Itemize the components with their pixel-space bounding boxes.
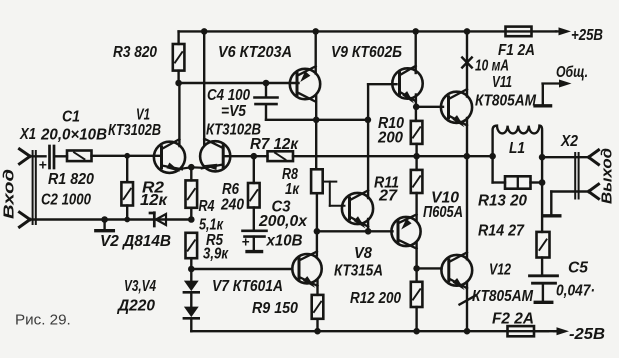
wire R12 to rail [415, 307, 417, 331]
node R10/R11 at bus [413, 153, 420, 160]
label L1 [509, 140, 525, 157]
arrow -25V [554, 327, 569, 335]
svg-text:R14 27: R14 27 [478, 223, 525, 240]
svg-text:+: + [39, 157, 47, 173]
label V1 type [108, 122, 161, 139]
wire C5 to ground [542, 283, 544, 300]
label C5 value [556, 283, 595, 300]
fuse F2 [508, 326, 535, 336]
wire emitters to R4 [190, 167, 192, 180]
label R1 value [48, 171, 94, 188]
label F2 [492, 311, 534, 328]
wire V5 base to output bus [223, 155, 267, 157]
wire V9 emitter down [415, 95, 417, 121]
svg-text:240: 240 [220, 197, 244, 214]
wire V3 to V4 [190, 293, 192, 307]
label C1 [62, 109, 80, 126]
label V8 [354, 245, 372, 262]
node V1 collector [175, 80, 182, 87]
svg-text:R4: R4 [199, 198, 215, 215]
capacitor C5 [530, 276, 558, 283]
wire V12 emitter to bottom rail [466, 282, 468, 331]
svg-text:R12 200: R12 200 [350, 290, 401, 307]
diode V3 [184, 281, 199, 293]
transistor V10 (P605A) [391, 214, 420, 248]
svg-text:КТ805АМ: КТ805АМ [475, 93, 537, 110]
svg-text:X2: X2 [560, 133, 578, 150]
svg-text:КТ805АМ: КТ805АМ [472, 288, 534, 305]
svg-text:П605А: П605А [423, 204, 463, 221]
connector X1 (input socket) [20, 149, 36, 227]
svg-text:V6 КТ203А: V6 КТ203А [218, 44, 292, 61]
label R2 [142, 180, 164, 197]
transistor V6 (KT203A) [290, 66, 320, 101]
label R13 [478, 193, 527, 210]
svg-text:10 мА: 10 мА [475, 58, 509, 75]
transistor V9 (KT602B) [392, 66, 422, 104]
wire bus to X2 [542, 156, 588, 158]
wire V8 emitter down [367, 219, 369, 231]
resistor R5 [186, 233, 198, 258]
svg-text:0,047·: 0,047· [556, 283, 595, 300]
transistor V12 (KT805AM) [441, 252, 472, 290]
wire C1 to R1 [55, 155, 68, 157]
diode V4 [184, 307, 199, 319]
wire output bus right [417, 155, 493, 157]
wire R2 bottom [126, 206, 128, 220]
label C3 value [258, 213, 308, 230]
wire V6 collector down to R8 [315, 95, 317, 169]
wire R1 to V1 base [92, 155, 162, 157]
node R2 top [124, 153, 130, 159]
svg-text:200,0х: 200,0х [258, 213, 308, 230]
svg-text:-25В: -25В [569, 326, 605, 343]
wire R7 to R10 node [293, 155, 417, 157]
transistor V11 (KT805AM) [441, 89, 472, 127]
label F1 [498, 42, 535, 59]
resistor R12 [411, 282, 423, 307]
svg-text:=V5: =V5 [221, 103, 246, 120]
transistor V5 [200, 139, 230, 172]
svg-text:5,1к: 5,1к [199, 217, 224, 234]
label V6 [218, 44, 292, 61]
node V10 collector / R12 / V12 base [413, 265, 420, 272]
wire V1 base to R2 top [126, 156, 128, 182]
wire R14 to C5 [541, 258, 543, 275]
label V5 type [206, 122, 261, 139]
label +25V [571, 27, 603, 44]
wire R9 to rail [316, 319, 318, 331]
wire C3 to ground [253, 237, 255, 251]
node R4/R5/V2 [188, 216, 195, 223]
label -25V [569, 326, 605, 343]
svg-text:R9 150: R9 150 [252, 300, 298, 317]
svg-text:КТ315А: КТ315А [334, 263, 383, 280]
label V12 type [472, 288, 534, 305]
svg-text:R6: R6 [222, 181, 239, 198]
wire R6 top lead [253, 156, 255, 183]
wire F2 to arrow [534, 330, 548, 332]
svg-text:1к: 1к [285, 181, 300, 198]
wire top rail (+25V bus) [179, 30, 556, 32]
node V6 emitter at rail [312, 28, 319, 35]
transistor V7 (KT601A) [292, 252, 321, 288]
label V11 [492, 74, 512, 91]
wire R11 to V10 emitter [415, 193, 417, 221]
node R6 top [251, 153, 258, 160]
capacitor C3 (electrolytic) [242, 231, 267, 250]
wire node to R12 [415, 268, 417, 281]
svg-text:X1: X1 [19, 126, 36, 143]
svg-text:С2 1000: С2 1000 [41, 192, 91, 209]
inductor L1 [493, 126, 542, 157]
wire V7 emitter to R9 [316, 281, 318, 295]
label C2 value [41, 192, 91, 209]
svg-text:V3,V4: V3,V4 [124, 278, 156, 295]
label R2 value [140, 192, 168, 209]
svg-text:V8: V8 [354, 245, 372, 262]
node L1 left at bus [489, 153, 496, 160]
label C4 note [221, 103, 246, 120]
label R4 [199, 198, 215, 215]
label V7 [212, 278, 283, 295]
resistor R4 [186, 180, 198, 207]
node R9 at rail [314, 328, 321, 335]
wire V10 collector down [415, 243, 417, 269]
wire L1 right down to R14 [541, 157, 543, 232]
resistor R3 [173, 44, 185, 71]
node V6 collector / C4 line [313, 117, 320, 124]
label V8 type [334, 263, 383, 280]
svg-text:V12: V12 [489, 262, 511, 279]
label X2 [560, 133, 578, 150]
ground (C3) [247, 250, 261, 253]
svg-text:F1 2А: F1 2А [498, 42, 535, 59]
svg-text:R1 820: R1 820 [48, 171, 94, 188]
wire bus to R11 [415, 156, 417, 170]
transistor V8 (KT315A) [342, 190, 373, 228]
leader line V12 label [460, 296, 476, 305]
resistor R1 [67, 151, 92, 162]
svg-text:V9 КТ602Б: V9 КТ602Б [331, 44, 402, 61]
wire X1 to C1 [29, 155, 46, 157]
resistor R7 [268, 151, 294, 161]
label R8 [282, 166, 298, 183]
wire X2 bottom to ground [551, 192, 588, 215]
label V12 [489, 262, 511, 279]
svg-text:С4 100: С4 100 [207, 87, 250, 104]
wire rail start to R3 [177, 31, 179, 44]
wire V1 collector up [178, 83, 180, 146]
node V11 collector at rail [464, 28, 471, 35]
node R2 bottom [124, 217, 130, 223]
wire R8 bottom to V7 collector [316, 193, 318, 255]
wire V6 emitter to rail [315, 31, 317, 73]
label R4 value [199, 217, 224, 234]
node V12 emitter at rail [464, 328, 471, 335]
svg-text:Выход: Выход [599, 148, 616, 204]
wire R3 to node [177, 71, 179, 83]
node R13 right [539, 179, 546, 186]
svg-text:х10В: х10В [266, 233, 303, 250]
svg-text:С1: С1 [62, 109, 80, 126]
resistor R14 [537, 232, 550, 258]
resistor R11 [411, 170, 423, 193]
wire V7 collector line to V10 base [317, 230, 393, 232]
wire R13 right [531, 181, 543, 183]
wire V8 collector up [367, 120, 369, 198]
label R10 [378, 115, 404, 132]
ground (input) [96, 220, 114, 231]
label R5 [206, 232, 223, 249]
label X1 [19, 126, 36, 143]
wire V11 collector to rail [466, 31, 468, 96]
svg-text:V1: V1 [136, 107, 150, 124]
label V2 [100, 233, 171, 250]
wire bottom rail (-25V bus) [191, 330, 556, 332]
svg-text:200: 200 [377, 130, 403, 147]
svg-text:L1: L1 [509, 140, 525, 157]
label R14 [478, 223, 525, 240]
fuse F1 [506, 27, 532, 37]
label V3,V4 [124, 278, 156, 295]
wire R5 to diode node [190, 258, 192, 269]
label C5 [568, 260, 588, 277]
wire C4 line to V8 collector line [266, 119, 368, 121]
arrow +25V [556, 27, 571, 35]
label V9 [331, 44, 402, 61]
label C4 [207, 87, 250, 104]
svg-text:Вход: Вход [1, 169, 18, 219]
wire R4 to node [190, 208, 192, 220]
capacitor C4 [255, 98, 278, 105]
label R5 value [203, 246, 229, 263]
label R11 value [378, 188, 398, 205]
node emitter junction [188, 164, 195, 171]
label C3 [272, 199, 291, 216]
wire node to V6 base [179, 82, 299, 84]
resistor R13 [505, 176, 531, 188]
caption Рис. 29. [15, 312, 71, 329]
label R3 [113, 44, 157, 61]
label R10 value [377, 130, 403, 147]
svg-text:20,0×10В: 20,0×10В [40, 127, 107, 144]
svg-text:V7 КТ601А: V7 КТ601А [212, 278, 283, 295]
resistor R8 [311, 169, 323, 193]
svg-text:27: 27 [378, 188, 398, 205]
connector X2 (output) [575, 150, 598, 199]
node V8 emitter [365, 228, 372, 235]
svg-text:+: + [242, 235, 250, 250]
svg-text:V11: V11 [492, 74, 512, 91]
label R11 [374, 175, 399, 192]
ground (C5) [535, 301, 552, 304]
label V3,V4 type [116, 298, 155, 315]
node C4 top [263, 80, 270, 87]
label V1 [136, 107, 150, 124]
terminal Общ. [535, 80, 571, 106]
wire X1 bottom to ground node [29, 218, 191, 220]
wire V7 base [191, 268, 292, 270]
svg-text:12к: 12к [140, 192, 168, 209]
wire V12 collector up to bus [466, 156, 468, 259]
node R5/V3/V7base [188, 266, 195, 273]
label V10 [431, 190, 459, 207]
wire R10 to bus [415, 144, 417, 156]
node R12 at rail [413, 328, 420, 335]
resistor R2 [121, 182, 133, 205]
wire V9 collector to rail [415, 31, 417, 73]
svg-text:Рис. 29.: Рис. 29. [15, 312, 71, 329]
wire V11 emitter down [466, 118, 468, 156]
node Выход (output label, rotated) [599, 148, 616, 204]
svg-text:3,9к: 3,9к [203, 246, 229, 263]
node Вход (input label, rotated) [1, 169, 18, 219]
node L1 right [539, 154, 546, 161]
svg-text:F2 2А: F2 2А [492, 311, 534, 328]
node V9 emitter / V11 base [413, 104, 420, 111]
node V9 collector at rail [412, 28, 419, 35]
resistor R10 [411, 121, 423, 144]
wire C4 top lead [265, 83, 267, 97]
wire to V11 base [416, 106, 443, 108]
transistor V1 [154, 139, 185, 173]
svg-text:Общ.: Общ. [556, 64, 588, 81]
current test point × [462, 58, 472, 68]
node V11 emitter at bus [464, 153, 471, 160]
ground (X2) [543, 214, 560, 217]
wire emitters join [181, 167, 203, 169]
svg-text:Д220: Д220 [116, 298, 155, 315]
label R7 [250, 136, 299, 153]
wire node to V3 [190, 269, 192, 281]
wire R8 tap [323, 182, 345, 206]
svg-text:R7 12к: R7 12к [250, 136, 299, 153]
label V11 type [475, 93, 537, 110]
svg-text:С5: С5 [568, 260, 588, 277]
wire V9 base corner [368, 84, 396, 120]
label R8 value [285, 181, 300, 198]
wire L1 left down to R13 [493, 156, 505, 182]
svg-text:КТ3102В: КТ3102В [108, 122, 161, 139]
label R12 [350, 290, 401, 307]
svg-text:V2 Д814В: V2 Д814В [100, 233, 171, 250]
node V5 collector at rail [201, 28, 208, 35]
label 10 mA [475, 58, 509, 75]
svg-text:+25В: +25В [571, 27, 603, 44]
label C1 value [40, 127, 107, 144]
wire V5 collector to +rail [203, 31, 205, 145]
resistor R9 [312, 295, 324, 319]
label C3 value 2 [266, 233, 303, 250]
wire C4 bottom to line [265, 105, 267, 120]
svg-text:R13 20: R13 20 [478, 193, 527, 210]
label Общ. [556, 64, 588, 81]
node V7 collector line [314, 228, 321, 235]
node ground junction [101, 216, 108, 223]
wire R6 to C3 [253, 208, 255, 230]
zener diode V2 [150, 213, 166, 226]
wire V4 to bottom rail [190, 319, 192, 331]
label R6 value [220, 197, 244, 214]
label V10 type [423, 204, 463, 221]
wire V12 base [417, 267, 442, 269]
label R9 [252, 300, 298, 317]
svg-text:R3 820: R3 820 [113, 44, 157, 61]
capacitor C1 [39, 146, 55, 173]
node V8 collector / C4 line [365, 117, 372, 124]
resistor R6 [248, 183, 260, 208]
label R6 [222, 181, 239, 198]
